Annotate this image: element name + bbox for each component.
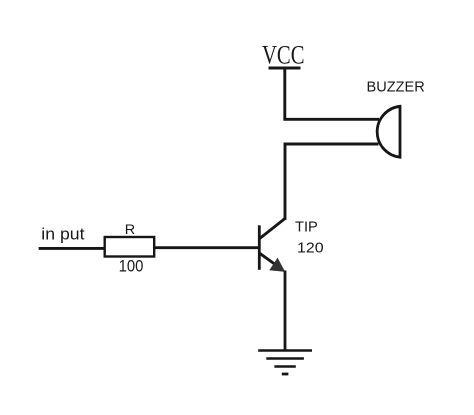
svg-text:BUZZER: BUZZER [367,80,425,96]
transistor Q1 emitter stroke [260,253,278,266]
ground bar 2 [266,357,304,359]
ground bar 1 [258,349,312,351]
ground bar 3 [274,365,295,367]
transistor Q1 collector stroke [260,219,285,239]
wire input [39,247,105,250]
svg-text:R: R [125,222,135,238]
label in put [41,226,85,244]
svg-text:VCC: VCC [262,40,305,70]
transistor Q1 emitter arrowhead [270,259,284,272]
VCC rail bar [269,67,301,70]
wire buzzer bottom lead to collector [285,144,379,220]
buzzer BZ1 [377,106,400,157]
svg-text:TIP: TIP [295,220,318,236]
label 120 [297,240,324,257]
label BUZZER [367,80,425,96]
transistor Q1 base bar [258,225,261,269]
label R [125,222,135,238]
wire VCC to buzzer top lead [285,68,379,119]
svg-text:in put: in put [41,226,85,244]
wire resistor to base [154,246,259,249]
label 100 [119,256,144,275]
svg-text:100: 100 [119,256,144,275]
wire emitter to ground [284,271,287,351]
label TIP [295,220,318,236]
label VCC [262,40,305,70]
ground bar 4 [282,373,289,376]
svg-text:120: 120 [297,240,324,257]
resistor R body [105,237,155,257]
